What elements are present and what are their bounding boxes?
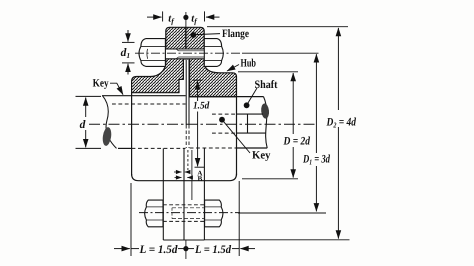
dimension t_f (left arrow, ticks, labels) [147, 11, 220, 25]
bolt B1 centre line (axis, dash-dot) [135, 52, 242, 54]
dimension d1 (bolt diameter) [121, 30, 135, 75]
svg-text:tf: tf [168, 14, 175, 26]
left shaft outline [102, 96, 186, 149]
dimension D2 = 4d (flange outer diameter) [205, 27, 357, 240]
svg-text:Hub: Hub [241, 58, 257, 70]
main shaft axis centre line (dash-dot) [89, 123, 315, 125]
svg-text:d1: d1 [121, 47, 131, 60]
svg-text:D = 2d: D = 2d [283, 136, 311, 148]
svg-text:L = 1.5d: L = 1.5d [194, 244, 231, 256]
dimension 1.5d (vertical, centre) [193, 80, 210, 167]
shaft end hidden line lower [187, 150, 189, 170]
bolt B2 centre line (axis, dash-dot) [139, 212, 240, 214]
hub outer silhouette lower half [132, 93, 237, 181]
bolt B1 thread lines [176, 49, 204, 59]
bolt B2 hex nut (lower, visible) [205, 200, 223, 227]
svg-text:Shaft: Shaft [255, 79, 278, 91]
dimension L = 1.5d (hub lengths, bottom) [114, 181, 255, 256]
left flange with hub (sectioned, hatched) [132, 27, 186, 92]
bolt B2 hex head (lower, visible) [145, 200, 163, 227]
flange outer silhouette lower half (bands) [163, 148, 204, 240]
svg-text:B: B [198, 175, 203, 183]
left shaft break hatched blob [102, 127, 113, 147]
recess edge line lower [191, 150, 193, 200]
vertical centre line with dot at top [183, 12, 188, 259]
flange parting joint line lower [183, 148, 185, 240]
dimension D = 2d (hub diameter) [238, 72, 310, 179]
svg-text:Flange: Flange [222, 28, 249, 40]
svg-text:Key: Key [252, 150, 271, 162]
svg-text:D2 = 4d: D2 = 4d [326, 116, 357, 129]
svg-text:L = 1.5d: L = 1.5d [139, 244, 178, 256]
bolt B1 hex nut [204, 39, 223, 67]
shaft end faces at centre (gap between shafts) [186, 60, 189, 148]
bolt B1 hex head [139, 39, 165, 67]
right flange with hub (sectioned, hatched) [186, 27, 237, 97]
bolt B2 hidden shank (dashed) [163, 205, 205, 222]
flange parting joint line (top, between flange faces) [185, 27, 187, 59]
dimension d (shaft diameter, left) [76, 96, 102, 148]
right shaft outline [190, 97, 268, 148]
svg-text:d: d [80, 119, 86, 131]
detail A B (flange contact faces) [174, 169, 203, 182]
svg-text:Key: Key [93, 77, 109, 89]
svg-text:D1 = 3d: D1 = 3d [302, 154, 330, 167]
label Shaft with leader dot [244, 79, 278, 108]
right key at side position (lines on shaft) [212, 114, 266, 133]
label Hub with leader arrow [227, 58, 256, 72]
dimension D1 = 3d (bolt circle diameter) [238, 54, 330, 213]
svg-text:1.5d: 1.5d [193, 101, 210, 112]
svg-text:tf: tf [191, 14, 198, 26]
label Key (right) with leader line [219, 117, 271, 162]
label Flange with leader dot [191, 28, 250, 40]
bolt B1 shank (through flanges) [164, 49, 206, 59]
label Key (left) with leader arrow [93, 77, 123, 94]
left key (keyway hidden line) [112, 103, 186, 105]
right shaft break hatched blob [260, 103, 269, 119]
